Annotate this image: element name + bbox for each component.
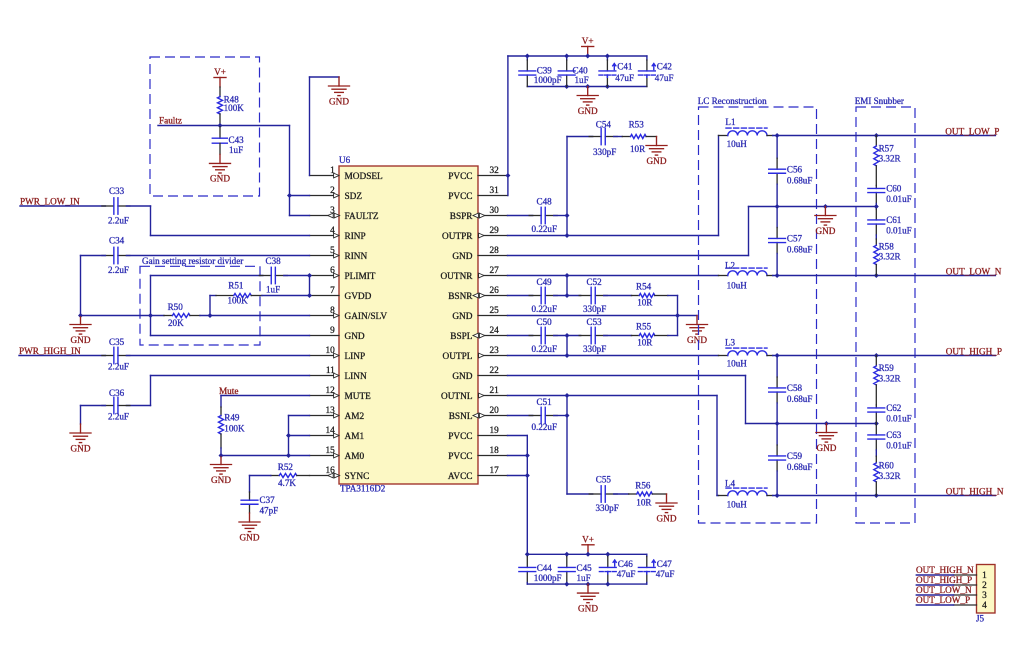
- svg-text:3.32R: 3.32R: [879, 154, 902, 164]
- svg-text:R60: R60: [879, 460, 895, 470]
- node AM1 tee: [286, 433, 291, 438]
- dashed box LC Reconstruction: [699, 107, 817, 523]
- svg-text:22: 22: [490, 366, 500, 376]
- svg-text:GND: GND: [452, 252, 472, 262]
- pin 20 BSNL: [449, 406, 508, 422]
- svg-text:10uH: 10uH: [727, 358, 748, 368]
- wire BSNR riser: [566, 276, 568, 296]
- svg-text:GND: GND: [71, 335, 91, 345]
- svg-text:C57: C57: [787, 234, 803, 244]
- svg-text:0.22uF: 0.22uF: [532, 224, 558, 234]
- port OUT_HIGH_N: [946, 486, 1004, 496]
- svg-text:18: 18: [490, 446, 500, 456]
- wire GVDD from divider: [210, 295, 216, 297]
- pin 3 J5: [954, 591, 988, 601]
- wire R51 vertical: [209, 296, 211, 316]
- svg-text:330pF: 330pF: [596, 503, 619, 513]
- resistor R52: [271, 462, 310, 488]
- svg-text:330pF: 330pF: [583, 344, 606, 354]
- svg-text:23: 23: [490, 346, 500, 356]
- node AM0 tee: [286, 453, 291, 458]
- svg-text:R49: R49: [224, 413, 240, 423]
- resistor R56: [629, 480, 667, 507]
- wire Mute vertical: [220, 396, 222, 408]
- svg-text:C63: C63: [886, 430, 902, 440]
- node C48-riser: [565, 213, 570, 218]
- wire RINP to pin 4: [151, 235, 310, 237]
- svg-text:5: 5: [330, 246, 335, 256]
- svg-text:330pF: 330pF: [593, 147, 616, 157]
- svg-text:C43: C43: [229, 135, 245, 145]
- node L2-C57: [775, 273, 780, 278]
- ground (top cluster): [577, 87, 598, 116]
- pin 13 AM2: [310, 406, 365, 422]
- wire gnd to R50: [81, 315, 165, 317]
- node SDZ tee: [287, 193, 292, 198]
- port OUT_LOW_N: [946, 266, 1002, 276]
- capacitor C33: [102, 186, 130, 225]
- ground (C36): [70, 424, 91, 453]
- resistor R57: [874, 136, 902, 186]
- note EMI Snubber: [855, 96, 904, 106]
- svg-text:R50: R50: [168, 302, 184, 312]
- pin 12 MUTE: [310, 386, 372, 402]
- svg-text:TPA3116D2: TPA3116D2: [340, 484, 386, 494]
- resistor R54: [632, 282, 668, 308]
- svg-text:3.32R: 3.32R: [879, 471, 902, 481]
- svg-text:100K: 100K: [228, 295, 249, 305]
- wire C38 to pin 6: [284, 275, 310, 277]
- svg-text:1uF: 1uF: [575, 75, 589, 85]
- wire C53-R55: [604, 335, 632, 337]
- node C50-C53 junction: [565, 333, 570, 338]
- wire C51 right: [554, 415, 567, 417]
- pin 15 AM0: [310, 446, 365, 462]
- pin 24 BSPL: [450, 326, 507, 342]
- capacitor C61: [868, 207, 912, 240]
- node bbus j0: [525, 552, 530, 557]
- dashed box gain divider: [140, 266, 260, 345]
- svg-text:0.22uF: 0.22uF: [532, 344, 558, 354]
- svg-text:47uF: 47uF: [656, 569, 675, 579]
- svg-text:0.22uF: 0.22uF: [532, 304, 558, 314]
- wire Faultz vertical to pins: [289, 126, 291, 216]
- svg-text:14: 14: [326, 426, 336, 436]
- node mid1 C56: [775, 204, 780, 209]
- node OUT_HIGH_P-R59: [874, 353, 879, 358]
- node bot bus j2: [585, 84, 590, 89]
- capacitor C59: [769, 424, 813, 496]
- svg-text:OUT_LOW_P: OUT_LOW_P: [916, 595, 970, 605]
- svg-text:31: 31: [490, 186, 500, 196]
- svg-text:GND: GND: [329, 96, 349, 106]
- svg-text:30: 30: [490, 206, 500, 216]
- dashed box EMI Snubber: [856, 107, 915, 523]
- wire OUTNL line: [508, 395, 718, 397]
- svg-text:GND: GND: [345, 332, 365, 342]
- svg-text:C33: C33: [109, 186, 125, 196]
- svg-text:6: 6: [330, 266, 335, 276]
- node R50-R51 junction: [208, 313, 213, 318]
- svg-text:OUT_HIGH_P: OUT_HIGH_P: [946, 346, 1002, 356]
- svg-text:3.32R: 3.32R: [879, 373, 902, 383]
- svg-text:C39: C39: [537, 65, 553, 75]
- svg-text:10R: 10R: [630, 144, 646, 154]
- svg-text:1: 1: [982, 571, 987, 581]
- svg-text:15: 15: [326, 446, 336, 456]
- capacitor C48: [529, 197, 557, 234]
- wire R51 to pin 7: [262, 295, 310, 297]
- wire L1 out: [773, 135, 996, 137]
- svg-text:SDZ: SDZ: [345, 192, 363, 202]
- wire mid line 1: [749, 206, 877, 208]
- svg-text:PWR_LOW_IN: PWR_LOW_IN: [20, 196, 80, 206]
- capacitor C46: [599, 554, 635, 584]
- wire OUTNL down to L4: [717, 396, 719, 496]
- svg-text:OUT_HIGH_P: OUT_HIGH_P: [916, 575, 972, 585]
- svg-text:PWR_HIGH_IN: PWR_HIGH_IN: [19, 346, 81, 356]
- wire LINN vertical: [150, 376, 152, 406]
- net label OUT_HIGH_N: [916, 565, 974, 575]
- node top bus j3: [585, 54, 590, 59]
- port OUT_LOW_P: [945, 126, 999, 136]
- capacitor C42: [639, 56, 674, 87]
- pin 28 GND: [452, 246, 507, 262]
- svg-text:1uF: 1uF: [577, 573, 591, 583]
- svg-text:47uF: 47uF: [615, 73, 634, 83]
- pin 19 PVCC: [448, 426, 507, 442]
- wire PLIMIT horizontal: [151, 275, 263, 277]
- svg-text:32: 32: [490, 166, 500, 176]
- svg-text:L3: L3: [725, 338, 736, 348]
- svg-text:1uF: 1uF: [229, 145, 243, 155]
- svg-text:OUTPR: OUTPR: [442, 232, 473, 242]
- node OUTNR-riser: [565, 273, 570, 278]
- port PWR_HIGH_IN: [19, 346, 81, 356]
- svg-text:R52: R52: [278, 462, 294, 472]
- wire snubber2 left: [567, 493, 593, 495]
- wire R50 to pin 8: [200, 315, 310, 317]
- svg-text:OUT_LOW_P: OUT_LOW_P: [945, 126, 999, 136]
- capacitor C53: [579, 317, 607, 354]
- wire OUTPR up to L1: [718, 136, 720, 236]
- wire PLIMIT vertical: [150, 276, 152, 336]
- svg-text:MUTE: MUTE: [345, 392, 372, 402]
- capacitor C54: [589, 120, 617, 157]
- svg-text:GVDD: GVDD: [345, 292, 372, 302]
- svg-text:V+: V+: [214, 67, 226, 77]
- svg-text:PVCC: PVCC: [448, 172, 472, 182]
- svg-text:2: 2: [982, 581, 987, 591]
- svg-text:C56: C56: [787, 164, 803, 174]
- svg-text:C41: C41: [617, 61, 632, 71]
- wire BSNL to C51: [508, 415, 533, 417]
- wire to pin 3 FAULTZ: [290, 215, 310, 217]
- power V+ (top): [582, 36, 594, 56]
- pin 18 PVCC: [448, 446, 507, 462]
- svg-text:FAULTZ: FAULTZ: [345, 212, 379, 222]
- pin 7 GVDD: [310, 286, 372, 302]
- svg-text:OUT_LOW_N: OUT_LOW_N: [916, 585, 972, 595]
- wire Faultz horizontal: [158, 125, 290, 127]
- node R54-R55 gnd junction: [675, 313, 680, 318]
- svg-text:27: 27: [490, 266, 500, 276]
- capacitor C35: [102, 337, 130, 371]
- wire OUT_HIGH_N stub: [916, 574, 953, 576]
- svg-text:24: 24: [490, 326, 500, 336]
- svg-text:0.01uF: 0.01uF: [886, 440, 912, 450]
- svg-text:L2: L2: [725, 261, 736, 271]
- resistor R51: [216, 280, 262, 305]
- svg-text:9: 9: [330, 326, 335, 336]
- wire bottom bot bus: [527, 583, 647, 585]
- wire MODSEL top horizontal: [310, 76, 340, 78]
- pin 21 OUTNL: [441, 386, 508, 402]
- svg-text:20K: 20K: [168, 318, 184, 328]
- resistor R55: [632, 322, 668, 348]
- svg-text:R59: R59: [879, 363, 895, 373]
- svg-text:0.68uF: 0.68uF: [787, 462, 813, 472]
- svg-text:0.68uF: 0.68uF: [787, 245, 813, 255]
- wire GND22 riser: [745, 376, 747, 424]
- svg-text:GND: GND: [210, 174, 230, 184]
- svg-text:AM0: AM0: [345, 452, 365, 462]
- svg-text:R53: R53: [629, 120, 645, 130]
- svg-text:Gain setting resistor divider: Gain setting resistor divider: [142, 256, 243, 266]
- node top bus j4: [605, 54, 610, 59]
- svg-text:7: 7: [330, 286, 335, 296]
- net label Mute: [219, 386, 238, 396]
- svg-text:R51: R51: [228, 280, 243, 290]
- svg-text:47uF: 47uF: [617, 569, 636, 579]
- resistor R59: [874, 356, 902, 405]
- wire R54 down: [668, 296, 678, 316]
- capacitor C47: [638, 554, 674, 584]
- resistor R50: [164, 302, 200, 328]
- svg-text:R54: R54: [636, 282, 652, 292]
- wire PVCC19 stub: [508, 435, 528, 437]
- svg-text:2.2uF: 2.2uF: [108, 215, 129, 225]
- svg-text:10R: 10R: [636, 497, 652, 507]
- svg-text:BSNR: BSNR: [448, 292, 473, 302]
- svg-text:PVCC: PVCC: [448, 432, 472, 442]
- pin 4 RINP: [310, 226, 366, 242]
- svg-text:C42: C42: [657, 61, 673, 71]
- svg-text:C38: C38: [266, 256, 282, 266]
- svg-text:0.68uF: 0.68uF: [787, 175, 813, 185]
- node OUT_LOW_P-R57: [874, 133, 879, 138]
- svg-text:16: 16: [326, 466, 336, 476]
- wire L3 out: [773, 355, 996, 357]
- pin 23 OUTPL: [443, 346, 508, 362]
- svg-text:0.68uF: 0.68uF: [787, 394, 813, 404]
- svg-text:OUT_HIGH_N: OUT_HIGH_N: [946, 486, 1004, 496]
- node mid2 emi: [874, 421, 879, 426]
- inductor L4: [719, 479, 773, 510]
- svg-text:PVCC: PVCC: [448, 452, 472, 462]
- node mid1 emi: [874, 204, 879, 209]
- wire BSPR to C48: [508, 215, 533, 217]
- svg-text:100K: 100K: [224, 103, 245, 113]
- wire BSNL riser: [566, 396, 568, 495]
- svg-text:19: 19: [490, 426, 500, 436]
- resistor R58: [874, 239, 902, 276]
- capacitor C63: [868, 424, 912, 457]
- node bbus2 j1: [564, 582, 569, 587]
- svg-text:C54: C54: [596, 120, 612, 130]
- node GVDD tie: [307, 293, 312, 298]
- note LC Reconstruction: [698, 96, 767, 106]
- node Faultz junction: [218, 123, 223, 128]
- wire BSPL riser: [566, 336, 568, 356]
- svg-text:R57: R57: [879, 143, 895, 153]
- wire RINP vertical: [150, 206, 152, 236]
- capacitor C40: [558, 56, 588, 87]
- wire GND25 line: [508, 315, 698, 317]
- port OUT_HIGH_P: [946, 346, 1002, 356]
- node OUT_LOW_N-R58: [874, 273, 879, 278]
- ground (R56): [656, 494, 677, 523]
- svg-text:0.01uF: 0.01uF: [886, 194, 912, 204]
- resistor R53: [622, 120, 656, 155]
- node L3-C58: [775, 353, 780, 358]
- ground (pin25): [687, 316, 708, 345]
- net label Faultz: [159, 116, 182, 126]
- svg-text:SYNC: SYNC: [345, 472, 370, 482]
- svg-text:GND: GND: [578, 106, 598, 116]
- node pin32 tee: [505, 173, 510, 178]
- svg-text:C62: C62: [886, 403, 902, 413]
- inductor L2: [719, 261, 773, 291]
- svg-text:20: 20: [490, 406, 500, 416]
- svg-text:C44: C44: [537, 563, 553, 573]
- svg-text:10uH: 10uH: [727, 139, 748, 149]
- node bbus2 j2: [586, 582, 591, 587]
- capacitor C57: [769, 207, 813, 276]
- svg-text:LINP: LINP: [345, 352, 366, 362]
- svg-text:C50: C50: [537, 317, 553, 327]
- wire OUTPL line: [508, 355, 719, 357]
- svg-text:29: 29: [490, 226, 500, 236]
- capacitor C49: [529, 277, 557, 314]
- svg-text:PVCC: PVCC: [448, 192, 472, 202]
- svg-text:GND: GND: [211, 475, 231, 485]
- pin 3 FAULTZ: [310, 206, 379, 222]
- wire PWR_LOW_IN: [20, 205, 105, 207]
- svg-text:GND: GND: [816, 443, 836, 453]
- pin 1 J5: [954, 571, 988, 581]
- resistor R48: [218, 87, 245, 126]
- wire OUT_HIGH_P stub: [916, 584, 953, 586]
- svg-text:C59: C59: [787, 451, 803, 461]
- wire C54-R53: [614, 136, 623, 138]
- inductor L3: [719, 338, 773, 369]
- capacitor C34: [102, 236, 130, 275]
- pin 9 GND: [310, 326, 365, 342]
- svg-text:LINN: LINN: [345, 372, 367, 382]
- svg-text:R56: R56: [635, 480, 651, 490]
- node mid1 gnd: [823, 204, 828, 209]
- node bot bus j1: [564, 84, 569, 89]
- svg-text:C47: C47: [657, 559, 673, 569]
- svg-text:26: 26: [490, 286, 500, 296]
- node C49-C52 junction: [565, 293, 570, 298]
- pin 14 AM1: [310, 426, 365, 442]
- svg-text:C60: C60: [886, 184, 902, 194]
- wire to pin 13 AM2: [289, 415, 310, 417]
- capacitor C56: [769, 136, 813, 207]
- node L4-C59: [775, 493, 780, 498]
- pin 1 MODSEL: [310, 166, 384, 182]
- svg-text:C36: C36: [109, 388, 125, 398]
- wire R52 left: [250, 475, 271, 477]
- capacitor C55: [589, 474, 619, 513]
- svg-text:OUT_LOW_N: OUT_LOW_N: [946, 266, 1002, 276]
- wire BSNR to C49: [508, 295, 533, 297]
- svg-text:Faultz: Faultz: [159, 116, 182, 126]
- pin 2 J5: [954, 581, 988, 591]
- net label OUT_LOW_N: [916, 585, 972, 595]
- wire pin17 stub: [508, 475, 528, 477]
- wire OUTPR riser: [566, 137, 568, 236]
- svg-text:C51: C51: [537, 397, 552, 407]
- ground (R53): [646, 137, 667, 166]
- svg-text:2.2uF: 2.2uF: [108, 411, 129, 421]
- svg-text:8: 8: [330, 306, 335, 316]
- svg-text:1000pF: 1000pF: [534, 75, 562, 85]
- pin 30 BSPR: [450, 206, 508, 222]
- wire OUTNR line: [508, 275, 719, 277]
- svg-text:10R: 10R: [637, 298, 653, 308]
- wire GND28 line: [508, 255, 749, 257]
- svg-text:4: 4: [982, 601, 987, 611]
- svg-text:330pF: 330pF: [583, 304, 606, 314]
- pin 8 GAIN/SLV: [310, 306, 388, 322]
- svg-text:3: 3: [982, 591, 987, 601]
- svg-text:C34: C34: [109, 236, 125, 246]
- node riser-OUTPL: [565, 353, 570, 358]
- svg-text:GND: GND: [452, 372, 472, 382]
- svg-text:28: 28: [490, 246, 500, 256]
- node L1-C56: [775, 133, 780, 138]
- svg-text:Mute: Mute: [219, 386, 238, 396]
- wire LINP to pin 10: [126, 355, 309, 357]
- svg-text:1: 1: [330, 166, 335, 176]
- wire MODSEL up: [309, 77, 311, 176]
- net label OUT_HIGH_P: [916, 575, 972, 585]
- node OUTNL-riser: [565, 393, 570, 398]
- svg-text:C45: C45: [577, 563, 593, 573]
- wire mid line 2: [746, 423, 877, 425]
- ground (input filter): [70, 316, 91, 345]
- svg-text:OUTNR: OUTNR: [440, 272, 473, 282]
- pin 31 PVCC: [448, 186, 507, 202]
- op-amp U6 TPA3116D2 body: [339, 155, 478, 493]
- node C51-riser: [565, 413, 570, 418]
- svg-text:OUTPL: OUTPL: [443, 352, 473, 362]
- ground (C43): [210, 154, 231, 183]
- pin 26 BSNR: [448, 286, 507, 302]
- svg-text:OUT_HIGH_N: OUT_HIGH_N: [916, 565, 974, 575]
- svg-text:47pF: 47pF: [260, 506, 279, 516]
- capacitor C36: [102, 388, 130, 421]
- dashed box Faultz pull-up: [150, 57, 260, 196]
- node mid2 gnd: [824, 421, 829, 426]
- wire RINN to pin 5: [126, 255, 309, 257]
- svg-text:C46: C46: [618, 559, 634, 569]
- capacitor C41: [599, 56, 634, 87]
- wire PWR_HIGH_IN: [19, 355, 105, 357]
